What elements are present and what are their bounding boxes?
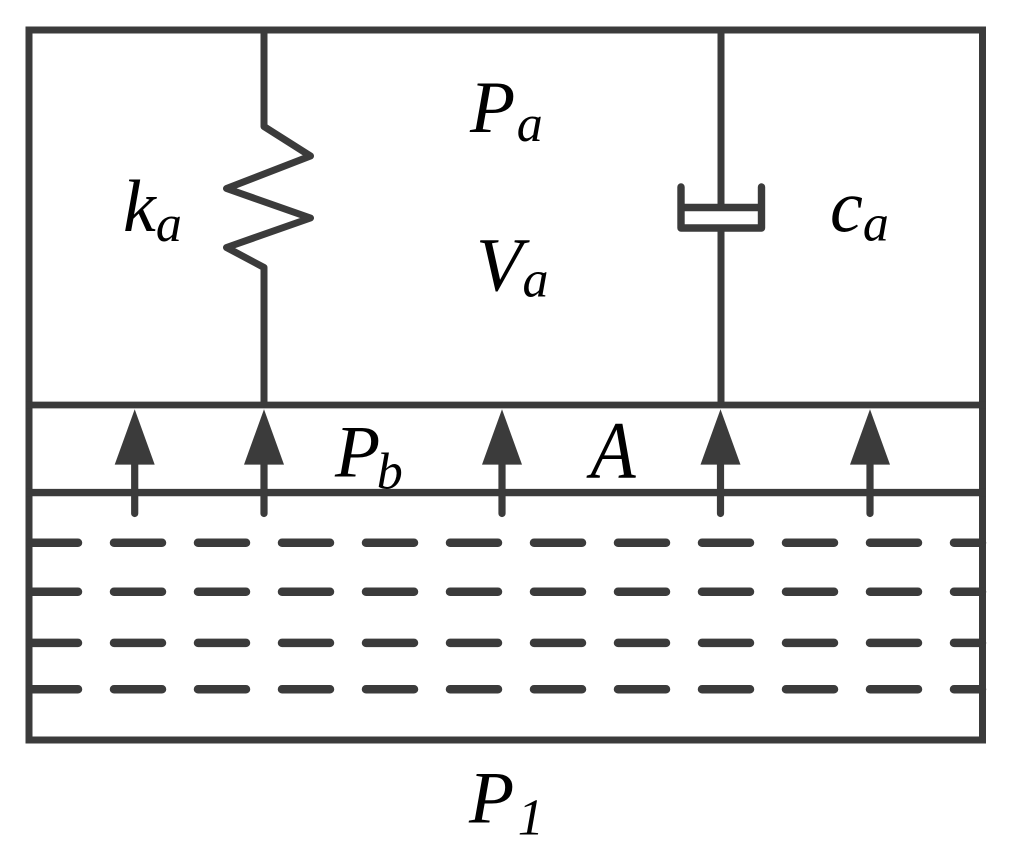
damper ca : cylinder cup (U shape) bbox=[681, 187, 762, 228]
liquid dashed line row 3 bbox=[30, 639, 982, 648]
liquid dashed line row 1 bbox=[30, 538, 982, 547]
spring ka (zigzag with connecting wires) bbox=[227, 30, 311, 405]
liquid dashed line row 4 bbox=[30, 685, 982, 694]
liquid dashed line row 2 bbox=[30, 588, 982, 597]
pressure arrow 4 bbox=[701, 409, 741, 513]
piston bottom plate (line below Pb chamber) bbox=[26, 489, 987, 496]
svg-text:A: A bbox=[586, 405, 636, 495]
enclosure box (outer cylinder wall) bbox=[29, 30, 983, 740]
pressure arrow 1 bbox=[115, 409, 155, 513]
pressure arrow 3 bbox=[482, 409, 522, 513]
piston top plate (line above Pb chamber) bbox=[26, 402, 987, 409]
damper ca : piston plate bbox=[681, 204, 762, 211]
pressure arrow 2 bbox=[244, 409, 284, 513]
damper ca : lower rod bbox=[718, 228, 725, 405]
damper ca : upper rod bbox=[718, 30, 725, 208]
pressure arrow 5 bbox=[850, 409, 890, 513]
